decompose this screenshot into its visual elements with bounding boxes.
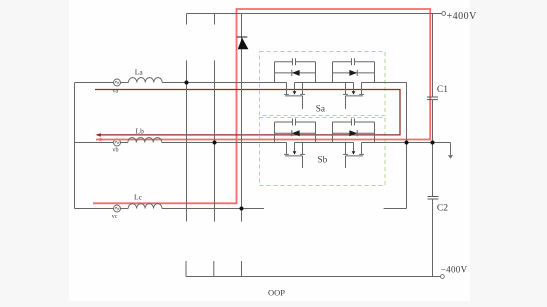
- svg-text:vc: vc: [112, 214, 118, 220]
- svg-text:−400V: −400V: [441, 264, 468, 274]
- bottom -DC bus wire: [186, 276, 441, 278]
- node midpoint junction: [431, 141, 435, 145]
- svg-text:C1: C1: [437, 85, 448, 95]
- Sb dashed enclosure: [260, 118, 386, 186]
- svg-text:Lb: Lb: [136, 127, 145, 136]
- +400V terminal: [442, 12, 446, 16]
- switch Sa right cell: snubber box with capacitor and diode: [333, 58, 375, 82]
- red current path loop 2 (va to vb, dark): [95, 90, 400, 137]
- phase a wire (va line / Sa rail): [75, 82, 407, 84]
- top stub phase-b: [214, 14, 216, 25]
- bottom stub phase-a: [185, 261, 187, 277]
- phase-c vertical wire with diode: [241, 14, 243, 222]
- source vc: [114, 205, 121, 212]
- inductor Lb: [128, 138, 162, 143]
- switch Sb left cell: snubber box with capacitor and diode: [275, 119, 316, 143]
- ground: [448, 143, 453, 159]
- svg-text:C2: C2: [437, 204, 448, 214]
- top stub phase-a: [186, 14, 188, 25]
- svg-text:OOP: OOP: [268, 288, 285, 298]
- svg-text:+400V: +400V: [447, 11, 478, 22]
- node phase-b junction: [213, 141, 217, 145]
- node phase-a junction: [185, 81, 189, 85]
- switch Sb right MOSFET: [343, 143, 364, 169]
- node Sa output junction: [405, 141, 409, 145]
- Sa dashed enclosure: [260, 52, 386, 116]
- svg-text:vb: vb: [113, 148, 119, 154]
- phase-a mid vertical wire: [186, 60, 188, 221]
- top +DC bus wire: [187, 13, 442, 15]
- left input rail wire: [74, 83, 76, 209]
- capacitor C1: [427, 97, 438, 100]
- svg-text:va: va: [113, 88, 119, 94]
- boost diode phase c: [237, 37, 249, 49]
- phase-b mid vertical wire: [214, 60, 216, 221]
- bottom stub phase-c: [241, 261, 243, 277]
- switch Sa right MOSFET: [343, 83, 364, 110]
- switch Sa left cell: snubber box with capacitor and diode: [275, 58, 316, 82]
- capacitor C2: [428, 197, 439, 200]
- phase b wire (vb line / Sb rail / midpoint wire): [75, 142, 451, 144]
- phase-c switch stub wire: [384, 208, 407, 210]
- red current path loop 1 (vc to vb, bright): [93, 9, 430, 203]
- Sa output vertical wire: [406, 83, 408, 209]
- node phase-c junction: [240, 207, 244, 211]
- svg-text:Sb: Sb: [318, 155, 328, 165]
- phase c wire (vc line): [75, 208, 265, 210]
- source va: [114, 79, 121, 86]
- svg-text:Sa: Sa: [316, 104, 325, 114]
- switch Sb right cell: snubber box with capacitor and diode: [333, 119, 375, 143]
- inductor Lc: [128, 204, 162, 209]
- switch Sb left MOSFET: [284, 143, 305, 169]
- bottom stub phase-b: [213, 261, 215, 277]
- right DC rail wire: [432, 14, 434, 277]
- inductor La: [128, 78, 162, 83]
- switch Sa left MOSFET: [284, 83, 305, 110]
- -400V terminal: [441, 275, 445, 279]
- svg-text:Lc: Lc: [134, 193, 143, 202]
- source vb: [114, 139, 121, 146]
- svg-text:La: La: [135, 68, 144, 77]
